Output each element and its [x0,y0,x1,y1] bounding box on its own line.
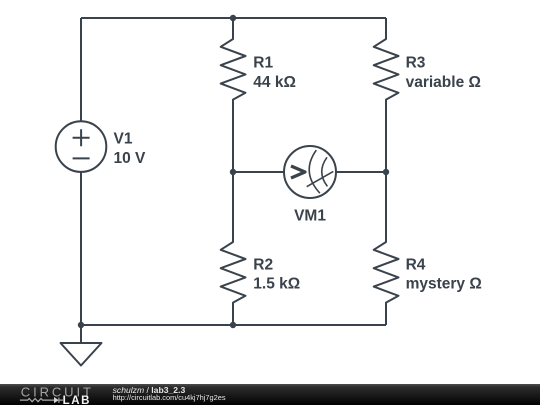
svg-text:LAB: LAB [63,395,91,405]
svg-text:44 kΩ: 44 kΩ [253,74,296,91]
svg-text:V1: V1 [114,131,133,148]
svg-text:10 V: 10 V [114,150,147,167]
svg-text:1.5 kΩ: 1.5 kΩ [253,276,300,293]
svg-text:VM1: VM1 [294,207,326,224]
svg-text:R3: R3 [406,55,426,72]
svg-text:R2: R2 [253,256,273,273]
svg-text:mystery Ω: mystery Ω [406,276,482,293]
svg-text:R4: R4 [406,256,426,273]
svg-text:variable Ω: variable Ω [406,74,481,91]
svg-text:R1: R1 [253,55,273,72]
